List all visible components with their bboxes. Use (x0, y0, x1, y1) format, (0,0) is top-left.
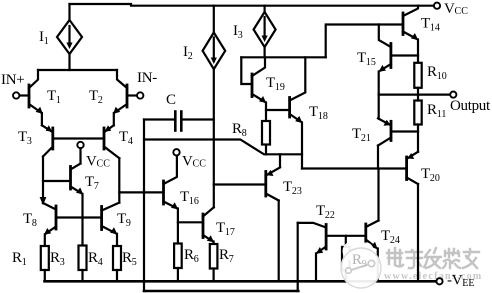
wire I2 down to T17 collector (213, 69, 215, 207)
wire T23 emitter down (278, 201, 280, 282)
transistor T23 (264, 172, 267, 197)
capacitor C (174, 112, 177, 131)
wire T8-T9 bases (56, 216, 102, 218)
wire T23 collector vertical (279, 154, 281, 167)
transistor T18 (288, 98, 291, 118)
resistor R8 (262, 121, 270, 145)
wire T24 collector vertical (377, 169, 379, 221)
terminal IN+ (13, 92, 19, 98)
transistor T19 (251, 74, 254, 97)
wire Vcc to T7 collector (79, 148, 81, 163)
transistor T1 (28, 85, 31, 107)
transistor T22 (325, 225, 328, 250)
transistor T14 (402, 13, 405, 35)
transistor T8 (55, 206, 58, 229)
wire T16e-T17b (178, 221, 203, 223)
watermark text 电子发烧友 (pseudo-glyph blocks, under circuit) (387, 248, 479, 268)
wire R8 bottom stub (265, 145, 267, 155)
terminal Vcc left (77, 142, 83, 148)
wire I3 top (264, 6, 266, 12)
transistor T24 (364, 224, 367, 242)
wire T20 collector down (417, 184, 419, 281)
current source I3 (254, 12, 276, 47)
transistor T4 (103, 128, 106, 149)
resistor R6 (174, 244, 182, 269)
transistor T20 (405, 157, 408, 180)
wire T18 emitter vertical (301, 123, 303, 169)
wire T17 emitter to R7 (213, 242, 215, 245)
Vcc terminal top right (434, 3, 440, 9)
wire C left down (143, 120, 145, 292)
wire T9 emitter to R5 (116, 234, 118, 246)
current arrow (40, 197, 47, 205)
transistor T7 (69, 167, 72, 190)
wire to T14 base (326, 25, 403, 58)
wire T3-T4 bases (53, 137, 104, 139)
wire T2 emitter (113, 113, 115, 125)
wire T15 emitter to output (378, 72, 380, 95)
transistor T21 (390, 121, 393, 140)
VEE terminal (436, 278, 442, 284)
svg-text:C: C (166, 92, 176, 108)
svg-text:IN-: IN- (137, 70, 157, 86)
resistor R11 (414, 101, 421, 125)
wire comp node (144, 140, 302, 155)
wire T21 collector up (378, 95, 380, 119)
wire T21 emitter down (377, 146, 379, 169)
wire T3 collector down (42, 157, 44, 204)
wire T1-T2 collectors (38, 69, 117, 71)
wire I1 top (68, 4, 70, 20)
wire I1 bottom (68, 54, 70, 70)
wire T14 emitter to R10 (417, 40, 419, 63)
svg-text:Output: Output (450, 98, 491, 114)
wire T16 emitter to R6 (177, 209, 179, 244)
wire I3 bottom (264, 47, 266, 57)
current source I1 (57, 20, 82, 54)
svg-text:IN+: IN+ (1, 72, 24, 88)
terminal IN- (137, 92, 143, 98)
terminal Vcc mid (173, 149, 179, 155)
wire bottom loop (144, 290, 298, 293)
resistor R7 (210, 244, 218, 269)
transistor T15 (389, 44, 392, 68)
transistor T2 (126, 85, 129, 107)
transistor T16 (162, 181, 165, 204)
wire T19 emitter to R8 (265, 103, 267, 122)
wire T1 emitter (41, 113, 43, 125)
resistor R3 (41, 246, 49, 270)
resistor R4 (79, 246, 87, 271)
transistor T9 (100, 207, 103, 230)
wire T8 emitter to R3 (44, 235, 46, 247)
resistor R10 (414, 63, 421, 88)
wire T4 collector down (118, 158, 120, 202)
top rail (70, 4, 434, 6)
wire node A below I3 (241, 56, 325, 58)
transistor T3 (51, 128, 54, 149)
VEE main rail (45, 280, 437, 283)
resistor R5 (113, 246, 121, 270)
transistor T17 (202, 214, 205, 238)
wire T22-T24 bases (326, 235, 366, 237)
current source I2 (203, 33, 226, 70)
terminal Output (450, 92, 456, 98)
resistor R9 (345, 236, 347, 247)
wire I2 top (213, 6, 215, 33)
wire T7 emitter to R4 (81, 194, 83, 246)
wire output node (379, 93, 451, 95)
watermark logo blob (over circuit) (341, 242, 381, 289)
